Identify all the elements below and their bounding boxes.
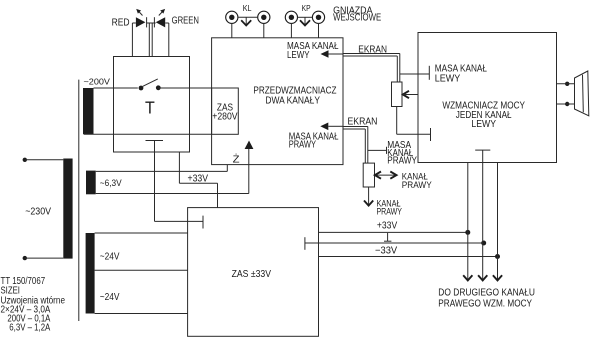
svg-text:~24V: ~24V <box>100 252 120 263</box>
svg-text:PRAWEGO WZM. MOCY: PRAWEGO WZM. MOCY <box>438 299 532 310</box>
svg-text:6,3V – 1,2A: 6,3V – 1,2A <box>9 322 50 333</box>
svg-text:~230V: ~230V <box>25 207 51 218</box>
svg-text:LEWY: LEWY <box>435 74 461 85</box>
svg-text:~200V: ~200V <box>84 76 111 86</box>
svg-text:DO DRUGIEGO KANAŁU: DO DRUGIEGO KANAŁU <box>438 288 535 299</box>
svg-text:LEWY: LEWY <box>287 50 310 61</box>
svg-text:+280V: +280V <box>212 112 238 123</box>
svg-text:Ż: Ż <box>233 152 240 165</box>
svg-text:ZAS ±33V: ZAS ±33V <box>232 269 272 280</box>
svg-text:GREEN: GREEN <box>172 16 199 27</box>
svg-text:PRAWY: PRAWY <box>289 140 317 151</box>
svg-text:PRAWY: PRAWY <box>377 207 403 218</box>
svg-text:LEWY: LEWY <box>471 119 496 130</box>
svg-text:~6,3V: ~6,3V <box>100 178 122 188</box>
svg-text:WEJŚCIOWE: WEJŚCIOWE <box>333 11 381 24</box>
svg-text:KL: KL <box>243 4 252 13</box>
svg-text:+33V: +33V <box>188 173 209 184</box>
svg-text:RED: RED <box>112 18 130 29</box>
svg-text:~24V: ~24V <box>100 292 120 303</box>
svg-text:T: T <box>145 97 155 117</box>
svg-text:PRAWY: PRAWY <box>387 156 417 167</box>
svg-text:−33V: −33V <box>375 245 398 256</box>
svg-text:PRAWY: PRAWY <box>402 180 432 191</box>
svg-text:EKRAN: EKRAN <box>348 116 378 127</box>
svg-text:KP: KP <box>302 4 311 13</box>
svg-text:DWA KANAŁY: DWA KANAŁY <box>265 96 320 107</box>
svg-text:+33V: +33V <box>377 220 398 231</box>
